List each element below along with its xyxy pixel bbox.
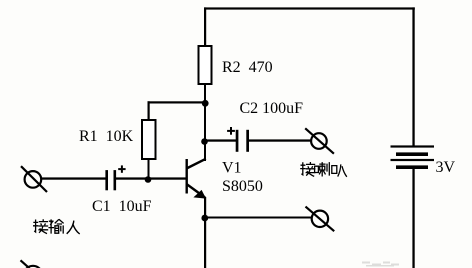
resistor R1	[142, 120, 156, 159]
wire C2 to speaker terminal	[249, 139, 312, 141]
svg-text:C2 100uF: C2 100uF	[240, 100, 304, 117]
char 接	[33, 219, 48, 233]
svg-text:S8050: S8050	[222, 178, 263, 195]
wire base junction to transistor base	[149, 177, 187, 179]
terminal output slash	[306, 207, 335, 232]
char 入	[67, 221, 80, 234]
battery B1 plates	[391, 145, 435, 169]
svg-text:R1 10K: R1 10K	[79, 128, 134, 145]
transistor V1 emitter arrowhead	[193, 190, 206, 199]
terminal input circle	[25, 171, 42, 188]
char 接	[300, 162, 315, 176]
transistor V1 base bar	[186, 159, 188, 194]
terminal speaker slash	[305, 128, 334, 153]
wire emitter branch to output terminal	[205, 217, 312, 219]
char 输	[48, 219, 63, 233]
wire emitter lead down	[204, 197, 206, 268]
C1 plus polarity mark	[118, 165, 125, 172]
label input terminal 接输入	[33, 219, 80, 234]
node junction base wire	[145, 176, 152, 183]
svg-text:V1: V1	[222, 160, 242, 177]
wire R1 top branch horizontal	[148, 101, 206, 103]
wire C2 branch horizontal	[205, 139, 236, 141]
wire battery top lead	[412, 7, 414, 146]
wire R1 bottom lead	[148, 159, 150, 179]
capacitor C2	[236, 130, 249, 152]
transistor V1 collector diagonal	[187, 159, 206, 169]
wire R2 bottom to collector trunk	[204, 84, 206, 161]
terminal output circle	[312, 211, 328, 227]
node junction C2 branch	[201, 138, 208, 145]
watermark remnant	[362, 262, 399, 267]
wire C1 to base junction	[116, 177, 149, 179]
terminal bottom-left partial slash	[21, 260, 30, 268]
capacitor C1	[105, 170, 116, 190]
node junction R1 branch	[202, 100, 209, 107]
svg-text:3V: 3V	[436, 159, 456, 176]
char 叭	[332, 164, 347, 176]
wire battery bottom lead	[412, 169, 414, 268]
wire input to C1	[41, 177, 106, 179]
C2 plus polarity mark	[227, 127, 235, 135]
wire collector lead	[204, 141, 206, 161]
wire trunk top (rail to R2)	[204, 7, 206, 46]
wire R1 top lead	[148, 101, 150, 120]
svg-text:R2 470: R2 470	[222, 59, 273, 76]
terminal input slash	[21, 166, 47, 192]
transistor V1 emitter diagonal	[187, 184, 206, 198]
resistor R2	[199, 46, 212, 84]
terminal speaker circle	[311, 133, 327, 149]
char 喇	[315, 162, 330, 176]
node junction emitter branch	[201, 215, 208, 222]
svg-text:C1 10uF: C1 10uF	[92, 198, 152, 215]
label speaker terminal 接喇叭	[300, 162, 347, 177]
wire top rail	[204, 7, 415, 9]
terminal bottom-left partial circle	[24, 266, 42, 268]
